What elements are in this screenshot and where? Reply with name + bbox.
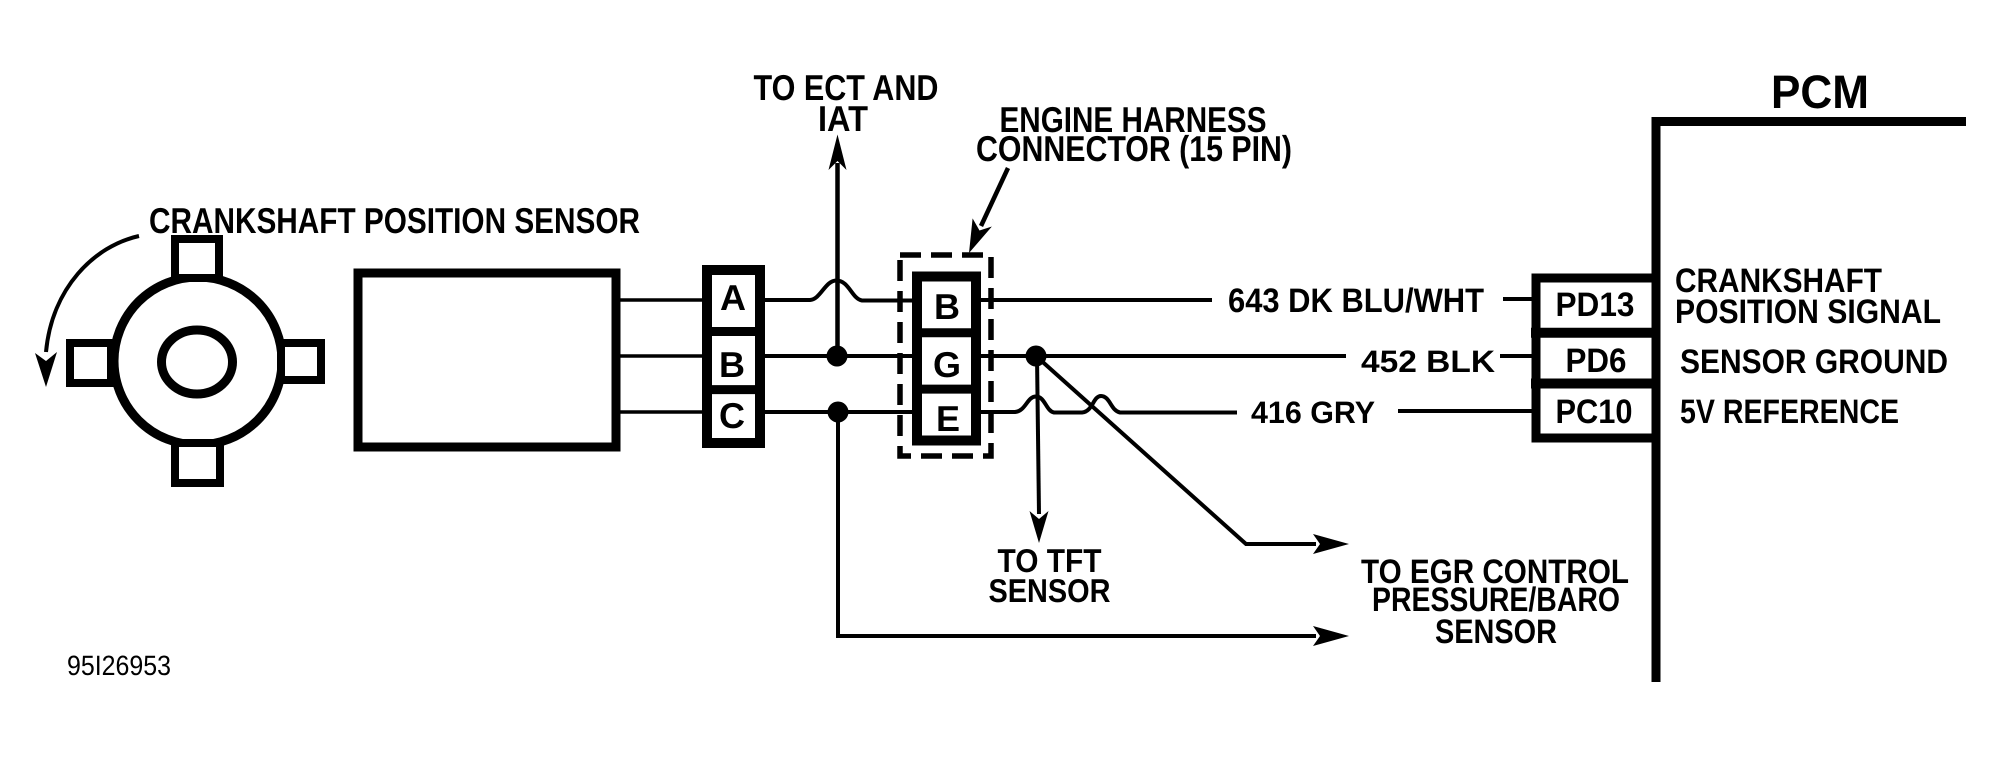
svg-text:B: B	[719, 344, 745, 385]
wire sensor pin C	[620, 410, 702, 414]
crankshaft position sensor icon	[70, 239, 321, 483]
svg-text:SENSOR GROUND: SENSOR GROUND	[1680, 343, 1948, 381]
svg-text:B: B	[934, 286, 960, 327]
svg-text:643 DK BLU/WHT: 643 DK BLU/WHT	[1228, 282, 1484, 320]
wire to ECT and IAT	[829, 135, 847, 357]
engine harness connector dashed box	[900, 255, 991, 456]
connector ABC	[702, 270, 765, 443]
svg-text:416 GRY: 416 GRY	[1251, 395, 1375, 430]
junction dot on wire B	[827, 346, 848, 367]
svg-text:E: E	[936, 398, 960, 439]
wire sensor pin A	[620, 298, 702, 302]
wire sensor pin B	[620, 354, 702, 358]
svg-text:SENSOR: SENSOR	[989, 572, 1111, 609]
PCM boundary	[1652, 117, 1967, 682]
wire from pin C to EGR sensor	[838, 412, 1349, 646]
svg-text:POSITION SIGNAL: POSITION SIGNAL	[1675, 293, 1941, 331]
svg-text:C: C	[719, 395, 745, 436]
svg-text:5V REFERENCE: 5V REFERENCE	[1680, 393, 1899, 431]
wire 643 to PCM	[981, 298, 1212, 302]
svg-text:PD13: PD13	[1556, 286, 1635, 324]
svg-text:IAT: IAT	[818, 98, 868, 139]
junction dot on wire 452	[1026, 346, 1047, 367]
leader arrow to harness connector	[969, 168, 1008, 253]
wire 452 to PCM	[981, 354, 1346, 358]
wire to TFT sensor	[1030, 356, 1049, 543]
svg-text:G: G	[933, 344, 961, 385]
wire to EGR control pressure/baro sensor	[1036, 356, 1349, 554]
wire B to harness pin G	[765, 354, 912, 358]
wire 416 to PCM with hops	[981, 396, 1237, 413]
svg-text:CONNECTOR (15 PIN): CONNECTOR (15 PIN)	[976, 128, 1292, 169]
svg-text:A: A	[720, 277, 746, 318]
svg-text:95I26953: 95I26953	[67, 650, 171, 681]
junction dot on wire C	[828, 402, 849, 423]
svg-text:PD6: PD6	[1566, 342, 1627, 380]
wire A to harness pin B with hop	[765, 281, 912, 301]
rotation arrow	[35, 236, 139, 387]
svg-text:SENSOR: SENSOR	[1435, 613, 1557, 651]
svg-text:PCM: PCM	[1771, 65, 1869, 118]
PCM connector pins	[1531, 278, 1656, 438]
wire C to harness pin E	[765, 410, 912, 414]
svg-text:CRANKSHAFT POSITION SENSOR: CRANKSHAFT POSITION SENSOR	[149, 200, 640, 241]
svg-text:452 BLK: 452 BLK	[1361, 344, 1496, 379]
engine harness connector BGE	[912, 277, 981, 441]
svg-text:PC10: PC10	[1556, 393, 1633, 431]
crankshaft position sensor body	[358, 273, 616, 447]
